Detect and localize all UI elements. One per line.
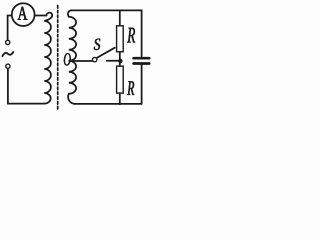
wire from bottom terminal down and along bottom to primary coil — [8, 69, 44, 104]
secondary coil L2 — [68, 10, 76, 104]
primary coil L1 — [44, 13, 52, 104]
resistor R2 lead bottom — [119, 93, 121, 104]
junction node dot — [118, 59, 122, 63]
node O label — [64, 53, 71, 65]
resistor R2 label — [127, 81, 134, 95]
wire from ammeter left down to source terminal — [8, 16, 12, 41]
wire from center tap O to switch pivot — [69, 60, 92, 62]
ammeter A1 letter — [18, 7, 28, 20]
top wire from secondary to capacitor branch — [71, 10, 141, 57]
bottom wire from secondary to capacitor branch — [75, 103, 142, 105]
capacitor C bottom plate — [134, 62, 150, 65]
AC source tilde symbol — [2, 52, 13, 56]
resistor R1 lead top — [119, 10, 121, 25]
capacitor C bottom lead — [141, 65, 143, 104]
resistor R1 box — [117, 26, 124, 52]
switch S pivot contact — [93, 57, 97, 61]
resistor R1 label — [127, 28, 135, 43]
resistor R2 lead top — [119, 61, 121, 66]
switch S blade — [97, 48, 115, 58]
wire from switch to junction — [107, 60, 121, 62]
transformer core (dashed) — [57, 6, 59, 111]
AC source terminal (top) — [6, 40, 10, 44]
resistor R2 box — [117, 66, 124, 93]
resistor R1 lead bottom — [119, 52, 121, 61]
switch S label — [94, 39, 100, 50]
AC source terminal (bottom) — [6, 64, 10, 68]
wire from ammeter right to primary coil top — [35, 15, 47, 17]
capacitor C top plate — [134, 57, 150, 60]
ammeter A1 circle — [12, 3, 35, 26]
